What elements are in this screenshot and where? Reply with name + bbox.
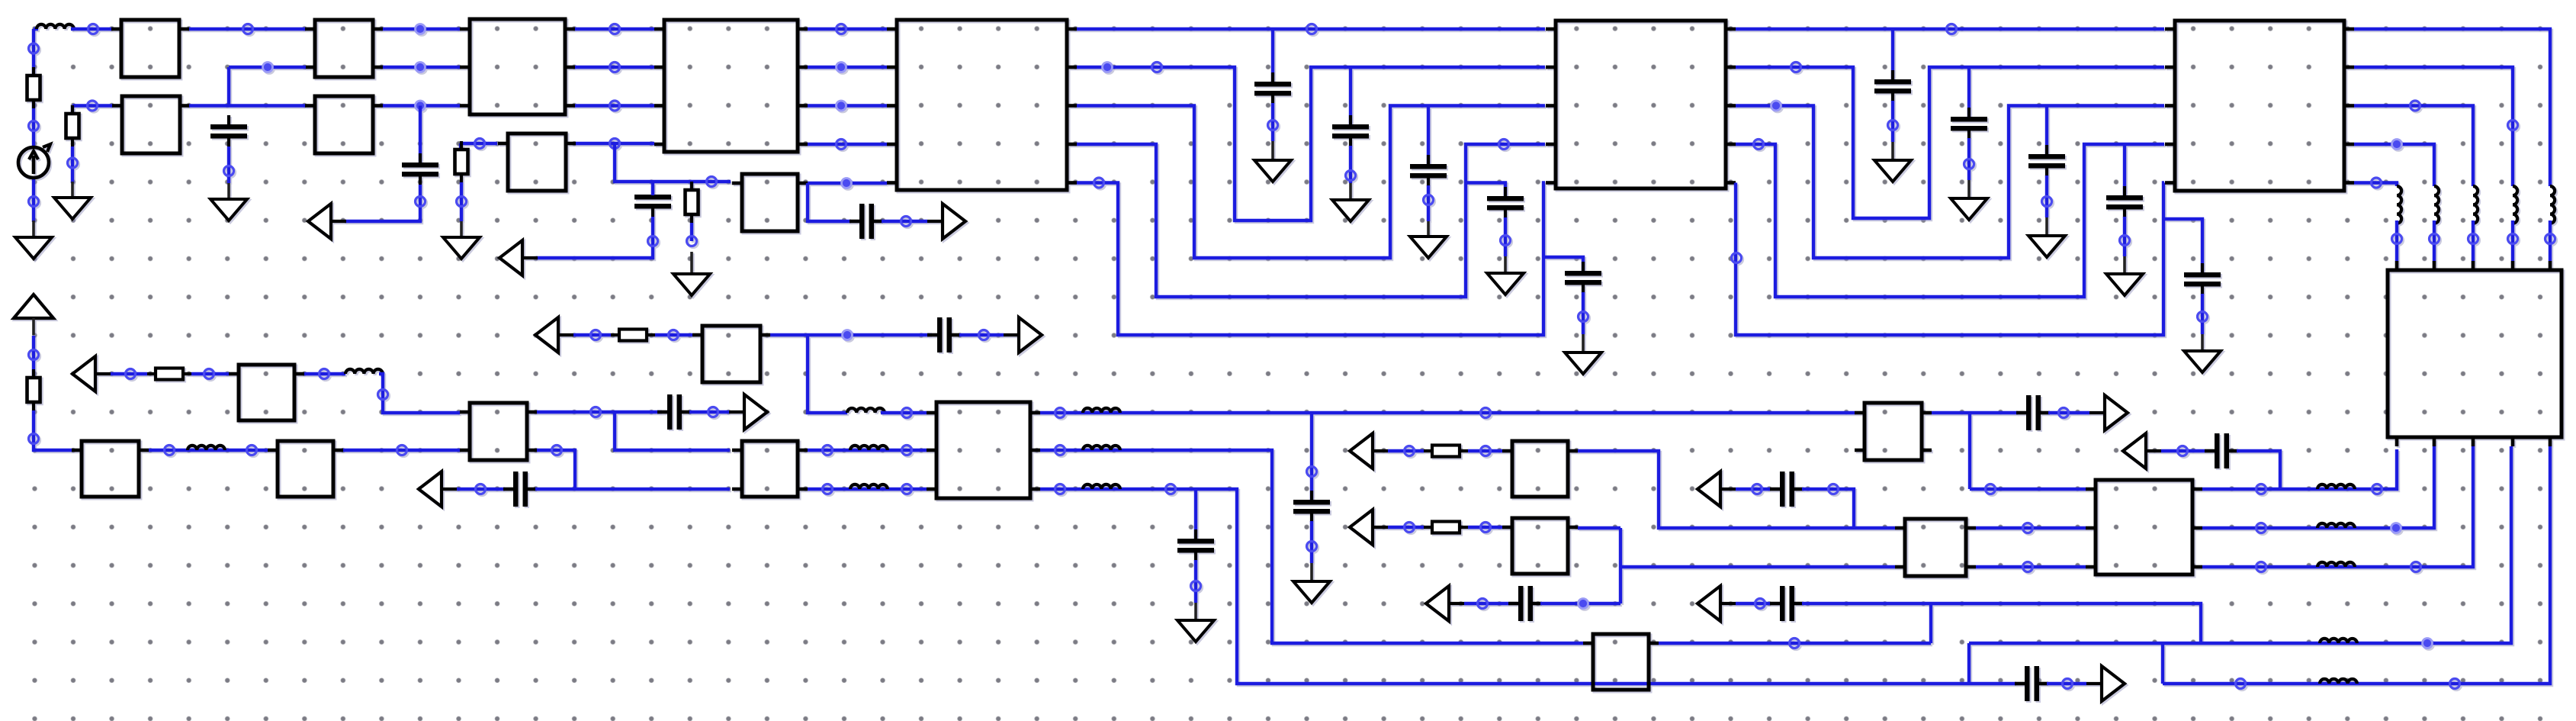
node N56 — [247, 446, 257, 455]
wire C23 east — [2237, 451, 2280, 489]
wire C5 down — [1271, 103, 1274, 141]
node N48 — [2198, 312, 2208, 322]
port P1 up — [14, 295, 53, 335]
wire R4 down — [690, 223, 693, 241]
node N102 — [2450, 679, 2460, 689]
node N51 — [2392, 140, 2402, 150]
wire C17 drop — [1310, 413, 1313, 501]
wire row1 right detour — [1736, 67, 2164, 218]
node N49 — [2508, 121, 2518, 130]
wire LV2 down — [2433, 220, 2436, 261]
wire X17 out641 — [808, 488, 927, 491]
wire drop 2583 — [1968, 413, 1971, 489]
node N61 — [378, 390, 388, 400]
ground stem G5 — [690, 252, 693, 275]
node N17 — [475, 139, 485, 149]
capacitor C25 — [657, 394, 691, 430]
ground stem G12 — [1967, 180, 1971, 200]
port P15 — [2123, 433, 2161, 468]
node N25 — [837, 24, 846, 34]
wire row3 detour — [1077, 144, 1545, 297]
node N54 — [29, 434, 39, 444]
wire P15 east — [2161, 449, 2205, 452]
wire LV3 down — [2472, 220, 2475, 261]
node N20 — [707, 177, 717, 187]
subcircuit X23 — [1895, 519, 1976, 576]
node N78 — [1191, 581, 1201, 591]
wire C11 down — [1967, 138, 1971, 180]
node N65 — [843, 330, 853, 340]
wire X8 east — [808, 182, 887, 185]
inductor L13 — [2320, 639, 2357, 643]
subcircuit X7 — [498, 134, 576, 191]
node N99 — [2411, 562, 2421, 572]
inductor L5 — [850, 446, 888, 450]
node N107 — [1481, 408, 1491, 418]
capacitor C24 — [2015, 666, 2048, 701]
wire C2 to port — [345, 185, 420, 221]
port P2 — [308, 204, 346, 239]
capacitor C6 — [1332, 115, 1369, 146]
port P5 — [72, 356, 111, 391]
capacitor C9 — [1565, 262, 1601, 293]
wire X8 down — [808, 183, 851, 221]
wire P12 east — [1736, 488, 1770, 491]
wire R2 to ground — [71, 146, 74, 183]
node N82 — [1405, 523, 1415, 533]
wire out0 — [2354, 29, 2550, 186]
port P17 — [729, 394, 767, 430]
ground G15 — [2184, 351, 2221, 372]
node N97 — [2391, 523, 2401, 533]
inductor LV1 — [2397, 186, 2401, 224]
node N87 — [1829, 484, 1839, 494]
wire row2 right detour — [1736, 106, 2164, 259]
node N93 — [1986, 484, 1996, 494]
resistor R6 — [147, 369, 191, 380]
subcircuit X18 — [692, 326, 770, 382]
wire C19 east — [1540, 602, 1620, 605]
node N11 — [88, 101, 98, 111]
wire X19 out590 — [1040, 450, 1583, 643]
wire X18 down — [808, 335, 847, 413]
subcircuit X13 — [72, 441, 149, 497]
node N100 — [2423, 639, 2433, 649]
node N50 — [2411, 101, 2420, 111]
ground stem G2 — [71, 182, 74, 199]
resistor R1 — [27, 67, 40, 108]
ground stem G4 — [460, 221, 463, 239]
wire left rail lower — [32, 178, 35, 222]
wire XN out743 — [2202, 446, 2473, 567]
wire C2 riser — [419, 106, 422, 164]
subcircuit X8 — [732, 174, 808, 231]
capacitor C3 — [634, 185, 671, 217]
ground G5 — [673, 274, 710, 295]
wire P11 east — [1464, 602, 1508, 605]
wire X13 to X14 — [149, 449, 268, 452]
wire P10 east — [1388, 526, 1424, 529]
wire X4 to X9 row1 — [808, 66, 887, 69]
subcircuit X14 — [268, 441, 343, 497]
node N13 — [263, 63, 273, 72]
subcircuit X11 — [2165, 21, 2354, 191]
wire L1 to X1 — [71, 27, 112, 31]
node N106 — [552, 446, 562, 455]
node N3 — [29, 197, 39, 207]
ground G16 — [1293, 581, 1330, 603]
subcircuit X4 — [654, 20, 808, 152]
capacitor C12 — [2028, 145, 2065, 176]
inductor L6 — [850, 484, 888, 489]
wire link 2532 — [1929, 604, 1932, 643]
wire C4 to port — [882, 220, 927, 223]
node NLV2 — [2430, 234, 2439, 244]
node N24 — [901, 217, 911, 227]
wire X23 out743 — [1976, 565, 2086, 568]
node N69 — [902, 446, 912, 455]
capacitor C1 — [210, 115, 247, 146]
node N73 — [1307, 467, 1317, 477]
node N31 — [1103, 63, 1113, 72]
wire X19 out540 — [1040, 411, 1855, 414]
subcircuit X17 — [732, 441, 808, 497]
wire X1 to X2 — [189, 27, 306, 31]
node N32 — [1152, 63, 1162, 72]
resistor R5 — [27, 369, 40, 410]
node NLV5 — [2545, 234, 2555, 244]
node N79 — [1790, 639, 1800, 649]
wire X14 to X15 — [343, 449, 460, 452]
port P16 — [2086, 666, 2125, 701]
ground stem G6 — [1271, 141, 1274, 162]
port P9 — [1350, 433, 1388, 468]
node N18 — [457, 197, 467, 207]
wire C14 down — [2201, 294, 2204, 334]
wire C24 east — [2047, 682, 2086, 685]
ground G14 — [2106, 274, 2143, 295]
ground stem G13 — [2045, 217, 2048, 237]
wire X6 to X3 row2 — [383, 104, 460, 107]
node N16 — [416, 197, 426, 207]
node N90 — [2023, 562, 2033, 572]
wire out2 — [2354, 106, 2473, 187]
node N72 — [1055, 408, 1065, 418]
node N89 — [2023, 523, 2033, 533]
node N57 — [397, 446, 407, 455]
node N38 — [1579, 312, 1588, 322]
ground G8 — [1410, 237, 1447, 258]
node N70 — [823, 484, 833, 494]
inductor L7 — [1083, 408, 1120, 413]
subcircuit X19 — [927, 402, 1040, 498]
capacitor C15 — [503, 472, 537, 507]
wire X4 to X9 row0 — [808, 27, 887, 31]
node N28 — [837, 140, 846, 150]
node N98 — [2256, 562, 2266, 572]
wire X3 to X4 row1 — [575, 66, 654, 69]
wire P1 rail — [34, 410, 72, 450]
wire C9 branch — [1543, 257, 1583, 272]
ground G17 — [1177, 620, 1214, 642]
node N74 — [1307, 542, 1317, 552]
wire X18 east — [770, 333, 932, 336]
wire R3 down — [460, 182, 463, 221]
wire row2 left — [72, 104, 113, 107]
resistor R2 — [66, 105, 79, 146]
wire left rail vertical — [32, 29, 35, 147]
capacitor C11 — [1951, 108, 1987, 139]
node N39 — [1947, 24, 1957, 34]
node N41 — [1791, 63, 1801, 72]
capacitor C2 — [402, 153, 438, 185]
subcircuit X5 — [112, 96, 190, 153]
wire X5 to X6 — [189, 104, 306, 107]
wire X4 to X9 row2 — [808, 104, 887, 107]
node NLV4 — [2508, 234, 2518, 244]
node N94 — [2256, 484, 2266, 494]
capacitor C5 — [1254, 72, 1291, 104]
node N42 — [1964, 159, 1974, 169]
node N58 — [126, 369, 136, 379]
node N66 — [979, 330, 989, 340]
node N68 — [823, 446, 833, 455]
node N23 — [842, 179, 852, 188]
node N67 — [902, 408, 912, 418]
node N36 — [1501, 236, 1511, 246]
node N63 — [591, 330, 601, 340]
wire C18 down — [1194, 560, 1197, 603]
ground stem G7 — [1349, 183, 1352, 201]
wire jog 2836 — [2161, 643, 2164, 684]
wire C8 down — [1504, 217, 1507, 256]
port P13 — [1698, 586, 1736, 621]
wire row0 mid — [1077, 27, 1545, 31]
wire R3 top — [459, 143, 462, 150]
inductor L8 — [1083, 446, 1120, 450]
wire LV1 down — [2395, 220, 2398, 261]
wire C7 down — [1427, 185, 1430, 221]
node N81 — [1481, 446, 1491, 456]
wire C14 branch — [2163, 219, 2202, 273]
node N91 — [2059, 408, 2069, 418]
ground G1 — [15, 237, 52, 259]
node N33 — [1346, 171, 1356, 181]
ground G2 — [54, 198, 91, 219]
node N104 — [591, 407, 601, 417]
wire XN out641 — [2202, 449, 2397, 489]
node N37 — [1094, 178, 1104, 188]
wire row896 west cap — [1969, 682, 2016, 685]
port P10 — [1350, 510, 1388, 545]
wire L4 to X19 — [881, 411, 927, 414]
wire C12 down — [2045, 175, 2048, 217]
node N55 — [165, 446, 175, 455]
wire out4 — [2354, 183, 2397, 187]
wire C9 down — [1582, 292, 1585, 334]
wire C17 down — [1310, 521, 1313, 563]
ground G11 — [1874, 160, 1911, 182]
wire row3 right detour — [1736, 144, 2164, 297]
wire P5 east — [111, 372, 147, 375]
wire P7 east — [573, 333, 611, 336]
wire C22 east — [2048, 411, 2089, 414]
node N45 — [1754, 140, 1764, 150]
ground stem G16 — [1310, 563, 1313, 583]
wire C10 down — [1891, 101, 1894, 142]
wire X2 to X3 row1 — [383, 66, 460, 69]
ground G13 — [2028, 236, 2065, 257]
wire C12 drop — [2045, 106, 2048, 156]
wire C13 drop — [2123, 144, 2126, 196]
node N62 — [476, 484, 486, 494]
node N101 — [2236, 679, 2246, 689]
capacitor C4 — [850, 204, 883, 239]
wire R8 to X21 — [1468, 449, 1502, 452]
wire XN in641 — [1970, 488, 2086, 491]
node N60 — [320, 369, 329, 379]
port P14 — [2089, 395, 2128, 430]
ground stem G9 — [1504, 256, 1507, 275]
node NLV1 — [2392, 234, 2402, 244]
ground stem G14 — [2123, 256, 2126, 275]
node N21 — [648, 237, 658, 246]
node N35 — [1499, 140, 1509, 150]
node N105 — [708, 407, 718, 417]
inductor L2 — [188, 446, 225, 450]
node N47 — [1732, 253, 1742, 263]
node N2 — [29, 121, 39, 131]
node N53 — [29, 350, 39, 360]
capacitor C19 — [1508, 586, 1542, 621]
inductor LV3 — [2473, 186, 2478, 224]
subcircuit X25 — [2086, 480, 2202, 575]
wire row0 start — [34, 27, 38, 31]
node N80 — [1405, 446, 1415, 456]
capacitor C23 — [2205, 433, 2238, 468]
capacitor C18 — [1177, 529, 1214, 561]
wire P1 down — [32, 336, 35, 378]
node N95 — [2372, 484, 2382, 494]
ground G6 — [1254, 160, 1291, 182]
node N64 — [669, 330, 679, 340]
node N59 — [204, 369, 214, 379]
wire L3 down — [379, 374, 460, 413]
inductor L10 — [2317, 484, 2355, 489]
wire LV4 down — [2511, 220, 2514, 261]
inductor L12 — [2317, 562, 2355, 567]
wire C7 drop — [1427, 106, 1430, 166]
wire C6 down — [1349, 146, 1352, 183]
wire out1 — [2354, 67, 2513, 186]
wire C3 up — [651, 182, 654, 195]
current source I1 — [18, 144, 50, 178]
node N12 — [68, 158, 78, 168]
wire C6 drop — [1349, 67, 1352, 125]
wire row1 detour — [1077, 67, 1545, 220]
node N34 — [1424, 195, 1434, 205]
wire R4 top — [690, 182, 693, 191]
node N88 — [1755, 599, 1765, 609]
inductor LV4 — [2513, 186, 2517, 224]
port P12 — [1698, 472, 1736, 507]
wire R3 link — [461, 142, 497, 145]
subcircuit X12 — [2388, 261, 2562, 446]
wire C20 east — [1802, 489, 1854, 528]
wire vert 2125 — [1619, 528, 1622, 604]
ground stem G15 — [2201, 334, 2204, 352]
wire R7 to X18 — [655, 333, 692, 336]
ground G4 — [443, 237, 480, 259]
wire 2125 to X23 — [1620, 565, 1895, 568]
wire C10 drop — [1891, 29, 1894, 80]
subcircuit X21 — [1502, 441, 1578, 497]
capacitor C22 — [2016, 395, 2050, 430]
port P4 — [927, 204, 965, 239]
subcircuit X1 — [111, 20, 189, 77]
wire C3 down to port — [536, 217, 653, 258]
inductor LV2 — [2434, 186, 2439, 224]
ground G12 — [1951, 198, 1987, 220]
node N103 — [2063, 679, 2073, 689]
node N30 — [1268, 121, 1278, 130]
node N27 — [837, 101, 846, 111]
node N92 — [2178, 446, 2188, 456]
wire C25 east — [689, 410, 729, 414]
node N4 — [88, 24, 98, 34]
node N46 — [2120, 236, 2130, 246]
ground G7 — [1332, 200, 1369, 221]
capacitor C21 — [1770, 586, 1804, 621]
wire X22 out — [1578, 526, 1620, 529]
inductor L3 — [345, 369, 383, 374]
capacitor C16 — [927, 317, 961, 352]
ground stem G3 — [227, 183, 230, 201]
wire C1 to node — [227, 146, 230, 183]
wire branch 806 — [615, 143, 731, 182]
ground stem G17 — [1194, 603, 1197, 622]
wire row2 detour — [1077, 106, 1545, 259]
wire drop 2582 — [1967, 643, 1971, 684]
subcircuit X9 — [887, 20, 1077, 190]
node N75 — [1055, 446, 1065, 455]
subcircuit X10 — [1546, 21, 1736, 188]
port P6 — [419, 472, 457, 507]
ground stem G11 — [1891, 142, 1894, 162]
wire C18 drop — [1194, 489, 1197, 539]
wire X3 to X4 row0 — [575, 27, 654, 31]
wire C15 to X17 — [535, 488, 730, 491]
wire X3 to X4 row2 — [575, 104, 654, 107]
node N1 — [29, 43, 39, 53]
wire X7 to X4 row3 — [576, 142, 654, 145]
capacitor C17 — [1293, 491, 1330, 522]
wire C8 branch — [1466, 183, 1505, 198]
capacitor C8 — [1487, 187, 1524, 218]
node N7 — [416, 63, 426, 72]
wire X4 to X9 row3 — [808, 143, 887, 146]
node N5 — [243, 24, 253, 34]
node N44 — [2042, 197, 2052, 207]
resistor R4 — [686, 182, 699, 223]
subcircuit X24 — [1855, 403, 1932, 460]
wire out3 — [2354, 144, 2434, 186]
subcircuit X20 — [1583, 634, 1659, 690]
capacitor C7 — [1410, 155, 1447, 186]
wire C21 east — [1802, 604, 2201, 643]
wire R9 to X22 — [1468, 526, 1502, 529]
inductor L4 — [847, 408, 885, 413]
